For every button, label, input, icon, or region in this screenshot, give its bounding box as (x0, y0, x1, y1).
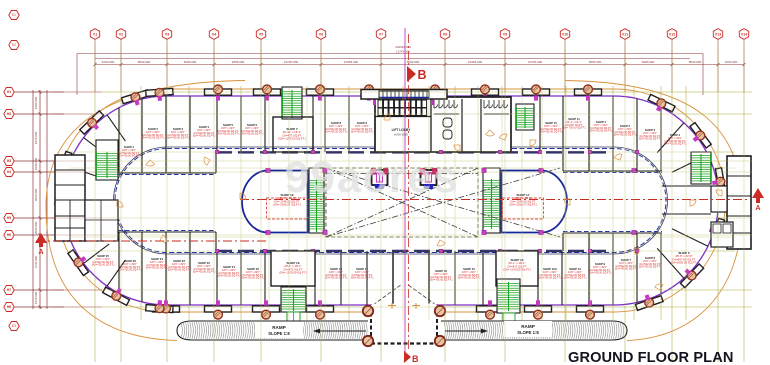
access road curve left (orange) (46, 81, 245, 341)
perimeter awning canopies (55, 88, 726, 312)
svg-text:9470.000: 9470.000 (34, 131, 38, 144)
building outline (purple) (63, 96, 719, 305)
svg-text:A: A (38, 249, 43, 256)
section marker B bottom (404, 351, 419, 364)
svg-text:10455.000: 10455.000 (344, 60, 359, 64)
svg-text:9840.000: 9840.000 (689, 60, 702, 64)
staircase left end (96, 140, 118, 180)
svg-text:H6: H6 (7, 233, 11, 237)
svg-text:4200.000: 4200.000 (102, 60, 115, 64)
shopfront line (blue dashed inner stadium) (115, 149, 666, 253)
svg-text:V3: V3 (165, 32, 169, 36)
central staircase right (483, 168, 500, 233)
svg-text:10405.000: 10405.000 (468, 60, 483, 64)
section marker B top (407, 66, 427, 82)
top dimension values (77, 54, 746, 96)
svg-text:RAMP: RAMP (521, 324, 535, 329)
svg-text:99acres: 99acres (285, 153, 459, 202)
svg-text:(SA= 1075.00 SQ.FT.): (SA= 1075.00 SQ.FT.) (278, 137, 306, 141)
svg-text:2695.000: 2695.000 (232, 60, 245, 64)
svg-text:H2: H2 (7, 112, 11, 116)
shop 17 enclosure (central right, blue) (502, 171, 568, 233)
svg-text:3840.000: 3840.000 (34, 221, 38, 234)
shop 19 enclosure (bottom) (271, 251, 315, 286)
shop divider walls (68, 96, 708, 305)
staircase below shop 19 (281, 287, 306, 312)
svg-text:B: B (412, 354, 419, 364)
bottom entrance vestibule (363, 303, 445, 346)
svg-text:(SA=705.00 SQ.FT.): (SA=705.00 SQ.FT.) (217, 133, 240, 136)
central staircase left (309, 168, 324, 233)
shop 14 enclosure (bottom) (496, 251, 538, 286)
ramp label left (255, 322, 366, 338)
ramp label right (445, 321, 552, 337)
grid bubbles V1-V14 (90, 29, 748, 92)
svg-text:HIGH SIDE: HIGH SIDE (394, 133, 408, 137)
svg-text:6965.000: 6965.000 (589, 60, 602, 64)
svg-text:(SA=705.00 SQ.FT.): (SA=705.00 SQ.FT.) (218, 275, 241, 278)
svg-text:H3: H3 (7, 159, 11, 163)
section marker A right (752, 188, 764, 212)
svg-text:GROUND FLOOR PLAN: GROUND FLOOR PLAN (568, 350, 733, 365)
stair run to ramp (right) (503, 313, 515, 322)
svg-text:V10: V10 (562, 32, 568, 36)
svg-text:4200.000: 4200.000 (34, 96, 38, 109)
svg-text:(SA=705.00 SQ.FT.): (SA=705.00 SQ.FT.) (325, 131, 348, 134)
svg-text:(SA=705.00 SQ.FT.): (SA=705.00 SQ.FT.) (458, 277, 481, 280)
svg-text:(SA= 1075.00 SQ.FT.): (SA= 1075.00 SQ.FT.) (503, 268, 531, 272)
stair run to ramp (left) (287, 312, 300, 331)
perimeter column markers (hatched circles) (56, 85, 725, 319)
svg-text:V11: V11 (622, 32, 628, 36)
svg-text:H5: H5 (7, 216, 11, 220)
svg-text:E1: E1 (12, 13, 16, 17)
svg-text:(SA=705.00 SQ.FT.): (SA=705.00 SQ.FT.) (119, 269, 142, 272)
shopfront glazing bars (216, 152, 612, 251)
structural column markers (magenta squares) (215, 150, 639, 253)
access road curve right (orange) (565, 81, 742, 341)
svg-text:(SA=705.00 SQ.FT.): (SA=705.00 SQ.FT.) (241, 133, 264, 136)
section marker A left (35, 233, 47, 256)
construction grid lines (overlay) (52, 42, 752, 362)
section line A-A (right) (240, 199, 748, 201)
shop labels (small red text) (92, 120, 687, 282)
svg-text:(SA= 2916.27 SQ.FT.): (SA= 2916.27 SQ.FT.) (509, 203, 537, 207)
large shop labels (267, 117, 698, 275)
svg-text:H1: H1 (7, 90, 11, 94)
basement ramps with hatching (177, 321, 627, 340)
svg-text:(SA=705.00 SQ.FT.): (SA=705.00 SQ.FT.) (146, 267, 169, 270)
svg-text:9840.000: 9840.000 (138, 60, 151, 64)
svg-text:(SA=705.00 SQ.FT.): (SA=705.00 SQ.FT.) (564, 277, 587, 280)
svg-text:6280.000: 6280.000 (184, 60, 197, 64)
svg-text:SLOPE 1:8: SLOPE 1:8 (517, 330, 539, 335)
svg-text:E3: E3 (12, 324, 16, 328)
escalator pair left (371, 168, 388, 189)
stepped shopfront shelves (118, 152, 662, 251)
left dimension strip with bubbles H1-H8 (14, 90, 64, 309)
svg-text:(SA=705.00 SQ.FT.): (SA=705.00 SQ.FT.) (168, 269, 191, 272)
svg-text:3810.000: 3810.000 (34, 188, 38, 201)
svg-text:10730.000: 10730.000 (284, 60, 299, 64)
svg-text:10730.000: 10730.000 (528, 60, 543, 64)
atrium void (dashed X) (326, 168, 560, 305)
staircase top-centre (above shop 7) (282, 87, 302, 119)
svg-text:(SA=705.00 SQ.FT.): (SA=705.00 SQ.FT.) (351, 277, 374, 280)
right end service block (662, 156, 751, 249)
outer canopy outline (orange) (56, 89, 726, 312)
svg-text:2940.000: 2940.000 (34, 157, 38, 170)
svg-text:H7: H7 (7, 288, 11, 292)
svg-text:V12: V12 (669, 32, 675, 36)
svg-text:(SA= 1075.00 SQ.FT.): (SA= 1075.00 SQ.FT.) (279, 271, 307, 275)
section line A-A (left) (36, 240, 267, 242)
svg-text:(SA=705.00 SQ.FT.): (SA=705.00 SQ.FT.) (639, 266, 662, 269)
section line B-B (red dash-dot vertical) (408, 34, 410, 352)
svg-text:(SA=705.00 SQ.FT.): (SA=705.00 SQ.FT.) (590, 130, 613, 133)
svg-text:V14: V14 (741, 32, 747, 36)
escalator pair right (420, 168, 437, 189)
central core - lift lobby and toilets (373, 97, 511, 152)
corner bubble E1 (9, 11, 19, 20)
svg-text:(SA=705.00 SQ.FT.): (SA=705.00 SQ.FT.) (639, 138, 662, 141)
svg-text:4200.000: 4200.000 (725, 60, 738, 64)
svg-text:H8: H8 (7, 305, 11, 309)
svg-text:RAMP: RAMP (272, 325, 286, 330)
perimeter column base plates (magenta) (63, 95, 718, 305)
svg-text:SLOPE 1:8: SLOPE 1:8 (268, 331, 290, 336)
main entrance canopy (top) (361, 90, 447, 100)
svg-text:V6: V6 (319, 32, 323, 36)
svg-text:V9: V9 (503, 32, 507, 36)
svg-text:(SA=705.00 SQ.FT.): (SA=705.00 SQ.FT.) (193, 135, 216, 138)
svg-text:4470.000: 4470.000 (34, 291, 38, 304)
svg-text:(SA=705.00 SQ.FT.): (SA=705.00 SQ.FT.) (167, 137, 190, 140)
bottom entrance hall walls (393, 251, 429, 303)
svg-text:(SA=705.00 SQ.FT.): (SA=705.00 SQ.FT.) (430, 279, 453, 282)
construction grid lines (under) (70, 42, 744, 362)
svg-text:(SA= 2916.27 SQ.FT.): (SA= 2916.27 SQ.FT.) (273, 203, 301, 207)
svg-text:B: B (418, 68, 427, 82)
staircase below shop 14 (497, 279, 520, 313)
svg-text:(SA=705.00 SQ.FT.): (SA=705.00 SQ.FT.) (351, 131, 374, 134)
svg-text:V5: V5 (259, 32, 263, 36)
svg-text:(SA=705.00 SQ.FT.): (SA=705.00 SQ.FT.) (193, 271, 216, 274)
svg-text:V2: V2 (119, 32, 123, 36)
staircase right end (691, 152, 711, 184)
svg-text:V8: V8 (443, 32, 447, 36)
svg-text:(SA=1630.00 SQ.FT.): (SA=1630.00 SQ.FT.) (671, 261, 698, 265)
svg-text:(SA=705.00 SQ.FT.): (SA=705.00 SQ.FT.) (142, 137, 165, 140)
shop 19 enclosure (central left, blue) (242, 171, 308, 233)
svg-text:(SA=705.00 SQ.FT.): (SA=705.00 SQ.FT.) (664, 143, 687, 146)
svg-text:(SA=705.00 SQ.FT.): (SA=705.00 SQ.FT.) (540, 131, 563, 134)
svg-text:H4: H4 (7, 170, 11, 174)
staircase right of core (516, 104, 534, 130)
door swing arcs (117, 114, 722, 290)
svg-text:V1: V1 (93, 32, 97, 36)
shopfront base line (dark inner stadium) (113, 147, 667, 254)
svg-text:6280.000: 6280.000 (642, 60, 655, 64)
svg-text:(SA=705.00 SQ.FT.): (SA=705.00 SQ.FT.) (325, 277, 348, 280)
svg-text:(SA=705.00 SQ.FT.): (SA=705.00 SQ.FT.) (589, 272, 612, 275)
left end service block (55, 155, 118, 241)
svg-text:V4: V4 (212, 32, 216, 36)
svg-text:A: A (755, 205, 760, 212)
corner bubble E3 (9, 322, 19, 331)
svg-text:V13: V13 (715, 32, 721, 36)
corner bubble E2 (9, 41, 19, 50)
shop 7 enclosure (273, 117, 313, 152)
svg-text:1143.000: 1143.000 (34, 256, 38, 269)
svg-text:V7: V7 (379, 32, 383, 36)
section line B-B (magenta vertical) (404, 28, 406, 358)
svg-text:E2: E2 (12, 43, 16, 47)
